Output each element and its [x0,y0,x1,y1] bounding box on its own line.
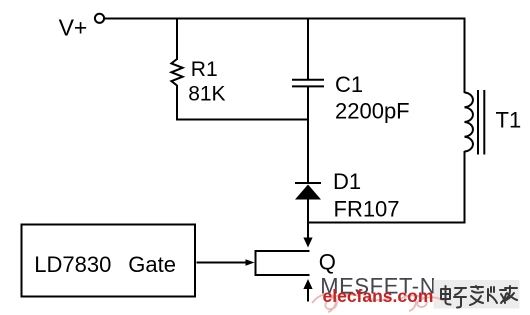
resistor R1 [171,59,182,85]
svg-text:2200pF: 2200pF [335,99,410,124]
wire top rail [105,18,466,20]
wire C1 branch top [307,19,309,81]
svg-text:FR107: FR107 [334,197,400,222]
wire bottom right [308,222,466,224]
svg-text:D1: D1 [333,169,361,194]
wire R1 branch bottom [176,85,178,121]
svg-text:elecfans.com: elecfans.com [323,286,434,306]
inductor T1 winding [465,93,473,152]
watermark script flourish [312,294,444,312]
IC LD7830 box [22,225,196,297]
wire right branch lower [464,151,466,224]
wire gate [197,259,255,266]
terminal V+ [95,14,104,23]
svg-text:Gate: Gate [128,252,176,277]
svg-text:C1: C1 [335,72,363,97]
wire source arrow [303,279,312,302]
capacitor C1 [292,80,324,87]
transformer T1 core [478,90,484,155]
wire right branch upper [464,19,466,94]
wire C1 to D1 [307,86,309,183]
watermark chinese characters [441,286,517,308]
svg-text:V+: V+ [59,15,88,41]
wire bottom loop [176,119,309,121]
wire R1 branch top [176,19,178,61]
transistor Q [256,251,310,275]
watermark strip [434,280,520,309]
diode D1 [295,183,321,200]
svg-text:T1: T1 [496,108,522,133]
svg-text:81K: 81K [188,83,225,106]
wire drain arrow [303,223,312,248]
svg-text:LD7830: LD7830 [34,252,111,277]
svg-text:R1: R1 [191,58,218,81]
svg-text:Q: Q [319,250,336,275]
wire D1 to drain node [307,199,309,224]
